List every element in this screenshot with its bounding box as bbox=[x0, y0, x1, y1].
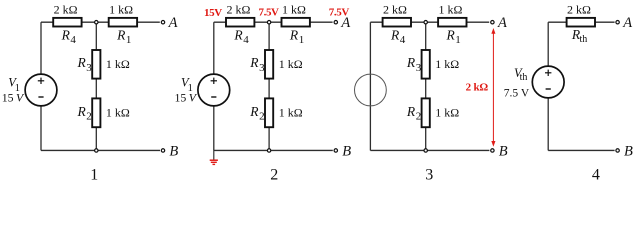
svg-text:2 kΩ: 2 kΩ bbox=[226, 3, 250, 17]
svg-text:R: R bbox=[446, 27, 456, 42]
svg-text:7.5V: 7.5V bbox=[329, 7, 350, 19]
svg-text:B: B bbox=[342, 143, 351, 159]
svg-text:1 kΩ: 1 kΩ bbox=[282, 3, 306, 17]
svg-text:7.5 V: 7.5 V bbox=[504, 88, 530, 100]
svg-text:R: R bbox=[249, 104, 259, 119]
svg-text:R: R bbox=[116, 27, 126, 42]
svg-text:1 kΩ: 1 kΩ bbox=[279, 57, 303, 71]
svg-text:R: R bbox=[77, 55, 87, 70]
svg-text:4: 4 bbox=[400, 34, 406, 46]
svg-text:B: B bbox=[624, 143, 633, 159]
svg-text:R: R bbox=[406, 104, 416, 119]
svg-text:3: 3 bbox=[86, 62, 92, 74]
svg-text:2: 2 bbox=[416, 111, 422, 123]
svg-text:1: 1 bbox=[455, 34, 461, 46]
svg-text:R: R bbox=[289, 27, 299, 42]
svg-text:A: A bbox=[168, 15, 178, 31]
svg-text:1 kΩ: 1 kΩ bbox=[439, 3, 463, 17]
svg-text:R: R bbox=[390, 27, 400, 42]
svg-text:R: R bbox=[61, 27, 71, 42]
svg-text:R: R bbox=[233, 27, 243, 42]
svg-text:A: A bbox=[622, 15, 632, 31]
svg-text:B: B bbox=[169, 143, 178, 159]
svg-text:1 kΩ: 1 kΩ bbox=[106, 105, 130, 119]
svg-text:3: 3 bbox=[416, 62, 422, 74]
svg-text:1: 1 bbox=[90, 167, 98, 184]
svg-text:4: 4 bbox=[592, 167, 600, 184]
svg-text:4: 4 bbox=[70, 34, 76, 46]
svg-text:2: 2 bbox=[86, 111, 92, 123]
svg-text:7.5V: 7.5V bbox=[259, 7, 280, 19]
svg-text:4: 4 bbox=[243, 34, 249, 46]
svg-text:th: th bbox=[580, 34, 588, 45]
svg-text:A: A bbox=[497, 15, 507, 31]
svg-text:15V: 15V bbox=[204, 7, 222, 19]
svg-text:2: 2 bbox=[270, 167, 278, 184]
svg-text:B: B bbox=[499, 143, 508, 159]
svg-text:2 kΩ: 2 kΩ bbox=[567, 3, 591, 17]
svg-text:2: 2 bbox=[259, 111, 265, 123]
svg-text:R: R bbox=[249, 55, 259, 70]
svg-text:1 kΩ: 1 kΩ bbox=[435, 57, 459, 71]
svg-text:R: R bbox=[406, 55, 416, 70]
svg-text:R: R bbox=[77, 104, 87, 119]
svg-text:1: 1 bbox=[126, 34, 131, 46]
svg-text:15: 15 bbox=[175, 90, 187, 104]
svg-text:3: 3 bbox=[259, 62, 265, 74]
svg-text:1 kΩ: 1 kΩ bbox=[109, 3, 133, 17]
svg-text:1: 1 bbox=[299, 34, 305, 46]
svg-text:2 kΩ: 2 kΩ bbox=[466, 81, 489, 93]
svg-text:15: 15 bbox=[2, 90, 14, 104]
svg-text:3: 3 bbox=[425, 167, 433, 184]
svg-text:1 kΩ: 1 kΩ bbox=[435, 105, 459, 119]
svg-text:th: th bbox=[520, 72, 528, 83]
svg-text:2 kΩ: 2 kΩ bbox=[383, 3, 407, 17]
svg-text:1 kΩ: 1 kΩ bbox=[106, 57, 130, 71]
svg-text:2 kΩ: 2 kΩ bbox=[54, 3, 78, 17]
svg-text:1 kΩ: 1 kΩ bbox=[279, 105, 303, 119]
